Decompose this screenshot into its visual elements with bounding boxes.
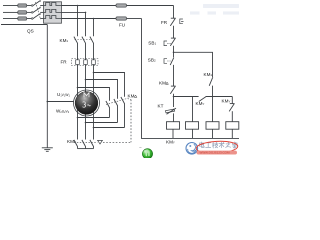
- contactor KM1 main contact 3: [90, 37, 94, 60]
- node B rail right: [174, 96, 199, 98]
- wire fuse to switch L1: [27, 5, 32, 7]
- contactor KM1 main contact 2: [82, 37, 86, 60]
- wire U to motor: [77, 65, 79, 98]
- watermark top right faint: [190, 4, 239, 15]
- stray mark: [139, 147, 141, 148]
- PE wire vertical: [46, 25, 48, 148]
- FR NC contact control: [170, 18, 183, 38]
- mechanical link triangle: [98, 140, 103, 144]
- wire fuse to switch L2: [27, 11, 32, 13]
- contact KM-delta NC interlock: [170, 86, 175, 107]
- svg-text:KMY: KMY: [196, 101, 205, 106]
- junction L1 drop: [77, 5, 79, 7]
- ground: [42, 148, 53, 152]
- switch QS linkage dashed: [36, 2, 41, 20]
- contactor KM-delta contact 1: [106, 101, 110, 118]
- fuse FU control a: [116, 4, 127, 7]
- svg-text:SB1: SB1: [148, 40, 156, 45]
- wire delta return 3: [94, 127, 125, 129]
- node B: [173, 96, 175, 98]
- svg-text:WWW.DGJS123.COM: WWW.DGJS123.COM: [200, 151, 231, 155]
- mechanical link dashed vertical: [130, 100, 132, 143]
- svg-text:QS: QS: [27, 29, 34, 34]
- contactor KM1 main contact 1: [74, 37, 78, 60]
- label KM-delta main: [128, 94, 137, 99]
- junction delta tap U: [77, 87, 79, 89]
- fuse FU1 phase L3: [18, 17, 27, 20]
- junction PE tap: [47, 101, 49, 103]
- thermal relay FR heater 2: [84, 60, 88, 65]
- PE wire horizontal: [1, 24, 47, 26]
- wire main vertical V drop: [85, 12, 87, 36]
- FR dashed enclosure: [72, 59, 99, 66]
- KM-Y linkage dashed: [74, 141, 97, 143]
- svg-text:KMY: KMY: [222, 99, 231, 104]
- svg-text:KMY: KMY: [166, 140, 175, 145]
- label KM-delta NC: [159, 81, 168, 86]
- svg-text:FR: FR: [61, 60, 68, 65]
- motor lead U2 down: [77, 108, 79, 140]
- node A branch to KM1: [174, 52, 213, 77]
- svg-text:KM1: KM1: [204, 72, 213, 77]
- KM1 main linkage dashed: [75, 39, 92, 41]
- transformer T winding 3: [44, 16, 62, 19]
- junction return tap W2: [93, 127, 95, 129]
- control rail left vertical top: [173, 6, 175, 19]
- contact KM1 NO self hold: [209, 77, 213, 122]
- svg-text:KM: KM: [159, 81, 166, 86]
- wire delta branch from W: [94, 73, 125, 97]
- junction delta tap V: [85, 79, 87, 81]
- wire delta branch from V: [86, 80, 118, 99]
- watermark logo circle: [186, 143, 198, 155]
- fuse FU control b: [116, 17, 127, 20]
- wire phase B horizontal: [62, 11, 86, 13]
- svg-text:U1V1W1: U1V1W1: [57, 92, 70, 98]
- wire L3 incoming: [3, 18, 18, 20]
- coil KT: [186, 122, 199, 130]
- wire delta branch from U: [78, 88, 110, 101]
- svg-text:FR: FR: [161, 20, 168, 25]
- contact KM-Y NC interlock: [229, 97, 234, 122]
- contactor KM-delta contact 2: [114, 99, 118, 123]
- contact KM-Y NO aux horizontal: [199, 97, 233, 102]
- svg-text:FU: FU: [119, 23, 125, 28]
- fuse FU1 phase L1: [18, 4, 27, 7]
- transformer T winding 2: [44, 9, 62, 12]
- wire main vertical U drop: [77, 6, 79, 37]
- transformer T box: [44, 2, 62, 23]
- fuse FU1 phase L2: [18, 11, 27, 14]
- svg-text:KMY: KMY: [67, 139, 76, 144]
- switch QS pole 3: [31, 13, 43, 19]
- button SB2 start NO: [164, 52, 174, 86]
- junction KM1 branch on rail: [212, 96, 214, 98]
- junction return tap V2: [85, 122, 87, 124]
- junction L3 drop: [93, 18, 95, 20]
- svg-text:SB2: SB2: [148, 57, 156, 62]
- wire coil2 drop: [192, 97, 194, 122]
- wire V to motor: [85, 65, 87, 96]
- junction return tap U2: [77, 117, 79, 119]
- wire delta return 1: [78, 117, 110, 119]
- wire phase C horizontal: [62, 18, 117, 20]
- junction L2 drop: [85, 12, 87, 14]
- PE tap to motor frame: [47, 101, 74, 103]
- svg-text:KM1: KM1: [60, 38, 69, 43]
- contactor KM-Y contact 2: [82, 140, 86, 149]
- watermark red ellipse: [196, 140, 238, 154]
- svg-text:KM: KM: [128, 94, 135, 99]
- contactor KM-delta contact 3: [121, 97, 125, 128]
- wire W to motor: [93, 65, 95, 98]
- wire top phase A to control tap: [62, 5, 117, 7]
- junction delta tap W: [93, 72, 95, 74]
- wire fuse b to down rail: [127, 18, 142, 20]
- green play icon: [142, 149, 152, 159]
- control return rail: [142, 19, 240, 139]
- svg-text:W2U2V2: W2U2V2: [56, 109, 70, 115]
- motor lead W2 down: [93, 108, 95, 140]
- contact KT delayed NC: [165, 108, 176, 122]
- coil bottom stubs: [173, 129, 232, 138]
- wire fuse to control rail: [127, 5, 174, 7]
- contactor KM-Y contact 1: [74, 140, 78, 149]
- motor lead V2 down: [85, 110, 87, 140]
- mechanical link dashed horizontal: [103, 141, 131, 143]
- coil KM1: [206, 122, 219, 130]
- wire main vertical W drop: [93, 19, 95, 37]
- wire L2 incoming: [3, 11, 18, 13]
- watermark text 电工技术之家: [199, 142, 237, 148]
- switch QS pole 2: [31, 7, 43, 13]
- wire L1 incoming: [3, 5, 18, 7]
- coil KM-Y: [167, 122, 180, 130]
- wire delta return 2: [86, 122, 118, 124]
- button SB1 stop NC: [164, 38, 176, 52]
- watermark red url bar: [197, 151, 238, 155]
- KM-Y star point bar: [78, 148, 94, 150]
- transformer T winding 1: [44, 3, 62, 6]
- coil KM-delta: [226, 122, 239, 130]
- svg-text:KT: KT: [158, 104, 164, 109]
- motor M: [74, 90, 100, 116]
- thermal relay FR heater 1: [76, 60, 80, 65]
- thermal relay FR heater 3: [92, 60, 96, 65]
- switch QS pole 1: [31, 0, 43, 6]
- KM-delta linkage dashed: [106, 99, 131, 105]
- node A: [173, 52, 175, 54]
- contactor KM-Y contact 3: [90, 140, 94, 149]
- wire fuse to switch L3: [27, 18, 32, 20]
